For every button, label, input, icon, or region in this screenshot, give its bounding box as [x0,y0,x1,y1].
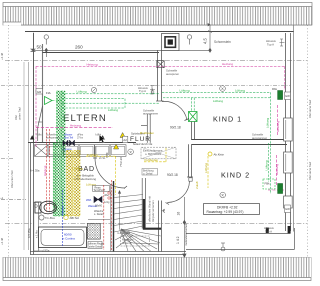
svg-text:Typ A: Typ A [139,89,146,93]
svg-text:llFußboden: llFußboden [140,131,154,135]
svg-text:unten Tauf: unten Tauf [18,107,22,120]
svg-text:16: 16 [177,212,181,216]
stair treads [114,195,143,249]
svg-text:60x60: 60x60 [95,203,103,207]
mouse cursor [99,135,105,143]
svg-text:6-5.35a: 6-5.35a [27,228,31,238]
flur partition wall [141,114,150,143]
circle symbol D eltern [91,87,96,92]
wall below KIND2 door [159,201,162,252]
door threshold green square [189,112,198,122]
svg-text:abst.Teil: abst.Teil [64,137,74,140]
door jamb ticks [93,101,193,205]
svg-text:Ab.Kiste: Ab.Kiste [214,153,225,157]
chimney [162,34,180,51]
svg-text:oBel.: oBel. [104,194,110,197]
svg-text:i+d.95a: i+d.95a [40,249,50,253]
KIND2 door hinge [189,178,192,181]
svg-text:in Cortina: in Cortina [62,237,75,241]
stair walk line [120,191,159,244]
ELTERN top wall [43,52,160,54]
svg-text:Heizung: Heizung [87,62,98,66]
svg-text:VGl siehe Tauf: VGl siehe Tauf [308,100,312,118]
svg-text:FLUR: FLUR [130,136,151,143]
svg-text:KIND 2: KIND 2 [221,171,250,180]
svg-text:Heizung: Heizung [222,62,233,66]
svg-text:Lüftung: Lüftung [264,160,268,170]
left outer wall [33,33,35,143]
repa box [93,186,110,192]
yellow lines flur [86,148,208,195]
wall ELTERN/FLUR chimney down [158,51,162,102]
vorwand strip bad [34,202,39,251]
svg-text:Rbk: Rbk [272,87,278,91]
svg-text:siehe Detail: siehe Detail [89,246,102,249]
svg-text:Lüftung: Lüftung [180,89,190,93]
right wall [286,33,291,231]
stair left tiny labels [104,188,110,204]
GR box [36,89,43,95]
black mark mid bottom [266,228,269,234]
radiator bottom right [278,184,283,194]
door handle mark [162,209,165,212]
svg-text:ABl.Teil: ABl.Teil [70,216,80,220]
svg-text:Schornstein: Schornstein [214,40,231,44]
bottom knee wall right [186,228,295,250]
svg-text:GW: GW [285,207,290,211]
dimension line top [31,48,211,57]
svg-text:Lüftung: Lüftung [108,108,118,112]
small level circle flur [151,89,154,94]
right wall window 3 [284,196,293,208]
svg-text:ausspuren: ausspuren [166,72,180,76]
lueftung lines KIND1 [162,92,271,194]
roof line dashed lower [5,223,307,225]
red dashed washer line [103,185,105,250]
svg-text:260: 260 [75,45,83,50]
svg-text:90/2.18: 90/2.18 [170,125,181,129]
left inner wall [42,44,44,143]
svg-text:Zuluft: Zuluft [195,181,199,189]
svg-text:VGl unten Teil: VGl unten Teil [10,170,14,188]
black corner right wall [288,226,291,233]
svg-text:X: X [129,149,132,154]
svg-text:X: X [221,193,224,198]
Hinweis top right [266,39,285,47]
heizung kind2 vertical [268,105,284,190]
roof line dashed upper [5,60,307,62]
threshold box with X [157,61,164,68]
roof line dashed left stub [1,85,290,87]
svg-text:X: X [221,86,224,91]
svg-text:FIA: FIA [46,91,51,95]
circle symbol X kind1 [220,86,226,92]
GW box bottom [285,205,291,213]
BAD door leaf [94,146,96,158]
svg-text:Lüftung: Lüftung [204,163,208,173]
valve bowtie 2 [70,140,75,146]
svg-text:Typ A: Typ A [265,230,272,234]
svg-text:Wasser: Wasser [61,206,65,215]
svg-text:Fußboden: Fußboden [145,158,159,162]
svg-text:6-4.35a: 6-4.35a [30,169,40,173]
svg-text:50: 50 [37,45,43,50]
right wall window 1 [284,118,293,141]
einschubtreppe dashed box [141,147,176,159]
svg-text:s. Detail: s. Detail [94,212,104,216]
svg-text:WM.: WM. [86,198,92,202]
svg-text:s.1.Ma: s.1.Ma [36,230,39,238]
Hinweis bottom right [264,226,274,234]
regal box [88,242,102,249]
wall FLUR/KIND2 [189,144,192,177]
heizung line top [36,66,285,147]
AB mark [64,215,68,219]
stair left wall [113,181,115,252]
GW box top [285,92,291,100]
BAD left wall [31,143,34,255]
svg-text:+2.48: +2.48 [0,237,4,245]
radiator top right [278,91,283,100]
red dashed line stairs [111,180,113,250]
svg-text:ausspannen: ausspannen [46,137,60,140]
svg-text:72/9: 72/9 [105,152,109,158]
top outline wall full width [25,31,294,33]
level note box [204,204,260,215]
right wall window 2 [284,152,293,173]
dimension column mid bottom [183,197,186,257]
svg-text:Trn-Box: Trn-Box [45,216,55,220]
texts above closet row [36,134,102,140]
svg-text:Rauantrag: +2.99 (43.97): Rauantrag: +2.99 (43.97) [207,210,244,214]
svg-text:ausspannen: ausspannen [143,112,159,116]
left short dash [1,158,14,160]
wall washer/stair [110,185,112,252]
yellow circle kind2 [208,152,212,156]
svg-text:Lüftung: Lüftung [77,90,87,94]
eaves dotted line right [307,25,309,257]
svg-text:Heizung: Heizung [276,121,280,132]
svg-text:Lüftung: Lüftung [73,167,83,171]
svg-text:f dfkt: f dfkt [36,134,42,137]
stair right wall thin [142,178,145,229]
svg-text:Geländersicherheit: Geländersicherheit [184,223,188,245]
svg-text:öffnung: öffnung [122,241,132,245]
svg-text:90/2.18: 90/2.18 [167,173,178,177]
svg-text:Heizung: Heizung [275,164,279,175]
survey symbol Y right [187,35,191,45]
stair inner wall thick L [144,199,161,229]
right outer line [293,25,295,232]
slope brace left [38,106,43,141]
bottom wall left [30,252,186,255]
svg-text:Lüftung: Lüftung [213,99,223,103]
wall FLUR/KIND1 [192,122,195,141]
Trn-Box [39,215,44,220]
red dashed lines BAD [47,129,50,212]
svg-text:+2.48: +2.48 [0,52,4,60]
ELTERN door arc [162,101,187,120]
circle symbol X flur [128,149,134,155]
lueftung lines ELTERN [62,94,159,108]
svg-text:A2: A2 [123,138,127,142]
heizung line mid [36,127,113,129]
survey symbol Y left [44,35,48,45]
KIND2 door arc [167,181,189,203]
svg-text:o. Dehal: o. Dehal [143,172,153,175]
FBk dashed green box [263,179,275,189]
yellow triangle B flur [114,144,119,149]
svg-text:Typ A: Typ A [267,43,274,47]
svg-text:fertig: fertig [104,201,110,204]
valve bowtie 1 [63,140,68,146]
svg-text:GW: GW [285,94,290,98]
bathtub [39,227,87,248]
svg-text:FBk: FBk [265,182,271,186]
washer hatched box [87,223,100,239]
lueftung lines KIND2 [267,143,269,182]
wall ELTERN/BAD [28,142,136,144]
svg-text:Lüftung: Lüftung [265,118,269,128]
svg-text:DKRFB +2.92: DKRFB +2.92 [217,205,238,209]
left dashed stub lower [1,199,26,201]
stair winder treads [121,229,161,251]
closet row [35,145,127,157]
blue water line [62,190,64,247]
svg-text:o. BW 50x91: o. BW 50x91 [145,152,161,156]
svg-text:Lüftung: Lüftung [235,89,245,93]
beluftung box [142,169,158,176]
roof slope lines left [23,62,25,250]
svg-text:77/2.20: 77/2.20 [119,157,123,167]
WC toilet [35,201,57,214]
svg-text:Verputz versehen: Verputz versehen [151,200,155,222]
counter line [88,219,110,221]
BAD door arc [95,158,125,188]
vertical dimension 4,5 [208,24,212,51]
yellow triangle A flur [120,133,125,138]
svg-text:m.Bodl.Dg: m.Bodl.Dg [117,231,131,235]
svg-text:VGl siehe Tauf: VGl siehe Tauf [308,162,312,180]
FIA triangle [45,91,63,105]
svg-text:ELTERN: ELTERN [63,113,107,124]
svg-text:4,5: 4,5 [203,38,208,44]
arrow mark left [30,135,34,139]
yellow supply strip [67,151,73,217]
montage dashed box [121,236,150,246]
valve bowtie washer [94,197,102,203]
wall KIND1/KIND2 [192,140,288,145]
svg-text:37!xx: 37!xx [77,137,84,140]
roof band top [3,3,312,26]
svg-text:Heizung: Heizung [70,124,81,128]
level mark bottom [221,243,225,251]
svg-text:1 4 2: 1 4 2 [176,236,180,244]
svg-text:ausspannen: ausspannen [252,136,268,140]
svg-text:belauf durch CE: belauf durch CE [133,142,152,146]
svg-text:Heizung: Heizung [43,165,47,176]
green supply strip [57,91,61,216]
A2 box [123,136,128,142]
arrow mark right [101,135,105,139]
eaves dotted line left [8,25,10,257]
roof band bottom [3,258,311,281]
circle symbol X kind2 [220,192,226,198]
svg-text:Fußbhzg: Fußbhzg [87,153,98,157]
svg-text:KIND 1: KIND 1 [213,115,242,124]
heizung dashes KIND2 [275,155,277,186]
red circles [108,192,110,194]
